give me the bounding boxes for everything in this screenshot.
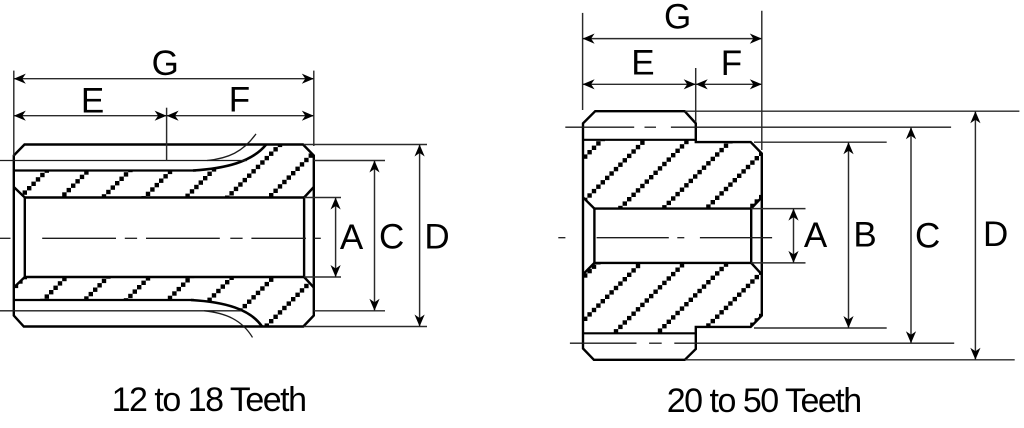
dimension A left: extension lines: [304, 197, 341, 199]
right gear hatching bottom: [579, 259, 768, 342]
dimension B right: line and arrows: [848, 142, 850, 328]
dimension A left: line and arrows: [335, 198, 337, 278]
right shoulder line top: [583, 139, 696, 141]
right pitch line bottom (C extension): [570, 342, 637, 344]
left centerline: [0, 237, 321, 239]
right centerline: [558, 237, 772, 239]
left bore outline: [25, 198, 304, 278]
svg-text:12 to 18 Teeth: 12 to 18 Teeth: [112, 381, 306, 419]
right pitch line top (C extension): [565, 126, 634, 128]
dimension G right: line and arrows: [583, 38, 762, 40]
dimension D right: extension lines: [685, 110, 1020, 112]
left tooth runout curve thick bottom: [191, 300, 262, 326]
right bore chamfers: [583, 197, 762, 274]
dimension D right: line and arrows: [974, 111, 976, 360]
left gear body outline: [14, 145, 314, 327]
left tooth runout curve thick top: [193, 145, 266, 171]
dimension F left: [167, 115, 314, 117]
svg-text:F: F: [229, 81, 250, 120]
left gear root line top: [14, 169, 196, 171]
right bore outline: [594, 209, 751, 263]
right gear hatching top: [579, 136, 768, 217]
svg-text:C: C: [915, 217, 940, 256]
svg-text:D: D: [424, 217, 449, 256]
left gear hatching top: [9, 140, 321, 206]
svg-text:F: F: [721, 44, 742, 83]
svg-text:G: G: [152, 44, 179, 83]
left gear root line bottom: [14, 299, 194, 301]
dimension A right: extension lines: [751, 208, 805, 210]
dimension A right: line and arrows: [793, 209, 795, 263]
dimension D left: line and arrows: [419, 145, 421, 327]
left tooth runout curve thin bottom: [204, 311, 253, 338]
left gear hatching bottom: [9, 273, 321, 335]
right gear body outline: [583, 111, 762, 360]
dimension G left: line and arrows: [14, 78, 314, 80]
svg-text:C: C: [379, 217, 404, 256]
dimension E right: [695, 68, 697, 122]
svg-text:A: A: [340, 218, 364, 257]
left bore chamfers: [14, 187, 314, 288]
dimension C left: extension lines: [314, 160, 385, 162]
dimension C left: [374, 161, 376, 311]
svg-text:20 to 50 Teeth: 20 to 50 Teeth: [667, 382, 861, 420]
dimension B right: extension lines: [754, 141, 887, 143]
dimension G left: extension lines: [13, 71, 15, 156]
dimension G right: extension lines: [582, 13, 584, 110]
dimension E left: [166, 108, 168, 161]
left tooth runout curve thin top: [207, 134, 256, 161]
svg-text:E: E: [631, 44, 654, 83]
dimension D left: extension lines: [304, 144, 428, 146]
left pitch line top: [0, 160, 247, 162]
svg-text:A: A: [804, 216, 828, 255]
dimension C right: line and arrows: [910, 127, 912, 343]
svg-text:B: B: [853, 216, 876, 255]
svg-text:E: E: [81, 82, 104, 121]
svg-text:D: D: [983, 215, 1008, 254]
left pitch line bottom: [0, 310, 241, 312]
right shoulder line bottom: [583, 332, 696, 334]
svg-text:G: G: [664, 0, 691, 36]
dimension F right: [696, 83, 762, 85]
